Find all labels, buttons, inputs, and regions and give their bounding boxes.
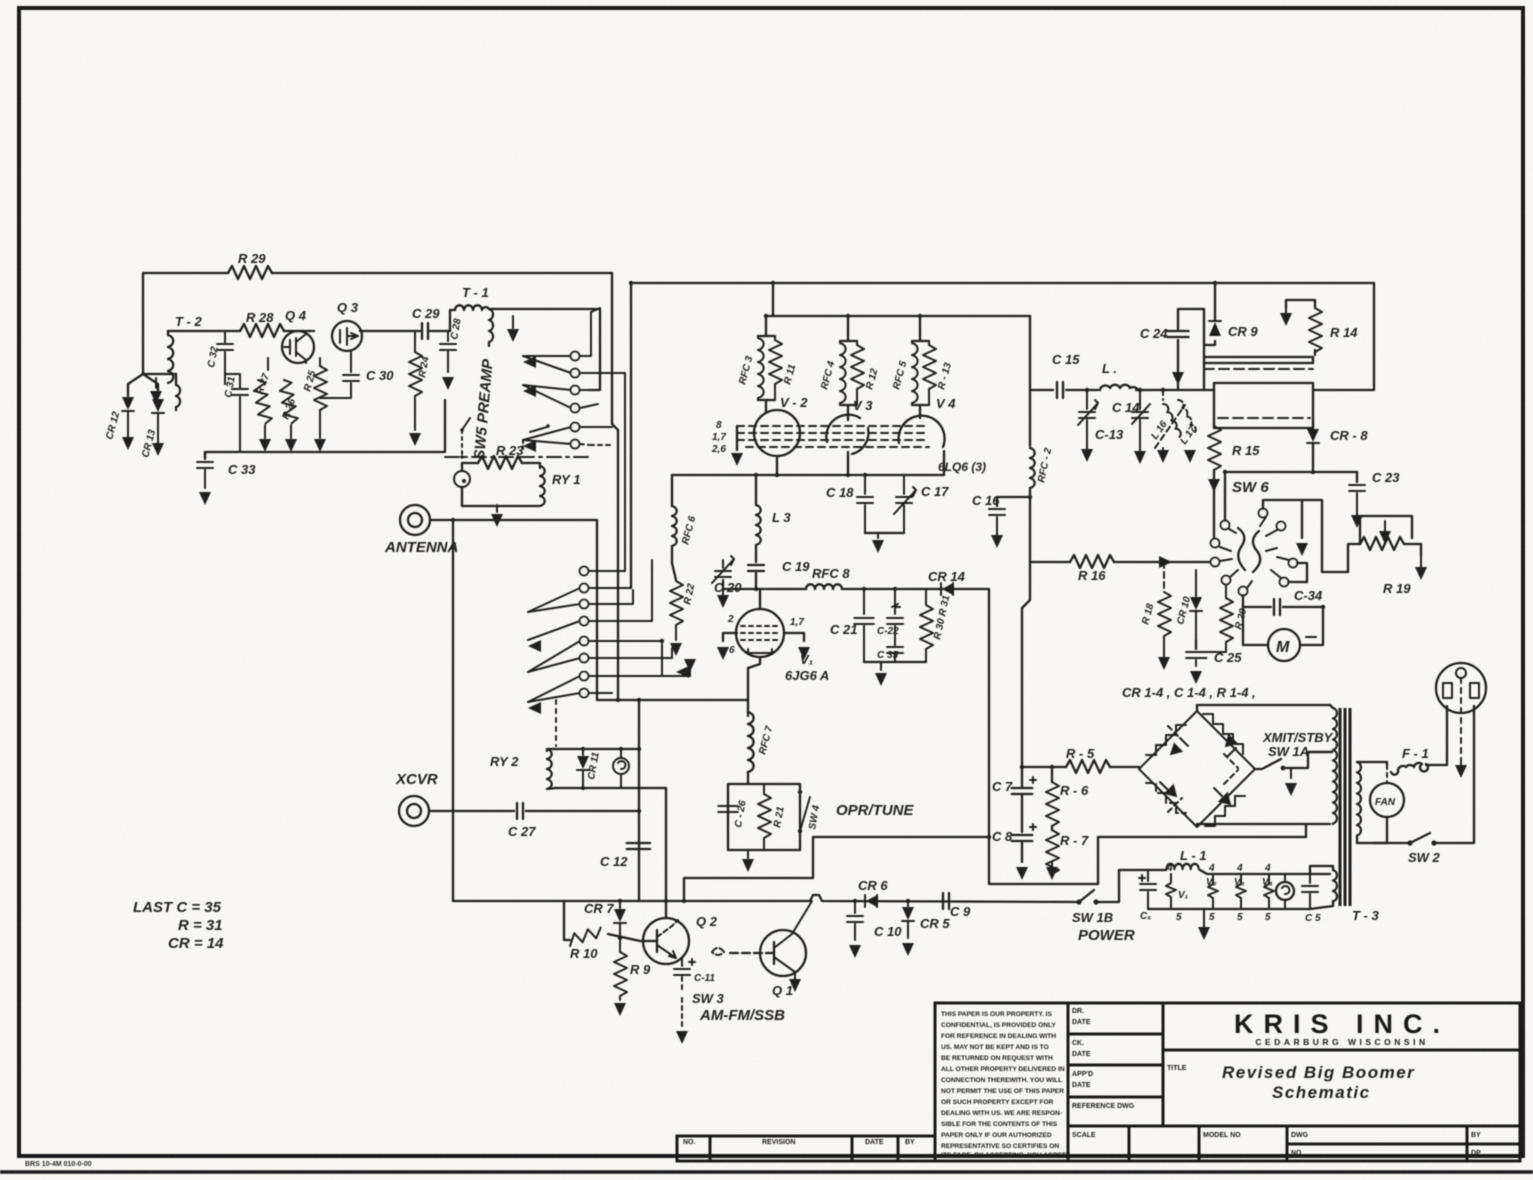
RFC7 xyxy=(747,700,749,716)
transistor Q4 xyxy=(282,331,314,363)
verticals xyxy=(638,700,640,901)
vertical x=1030 down to C7/C8 xyxy=(1022,562,1030,767)
C8 xyxy=(1012,835,1032,841)
LAST C note xyxy=(133,899,224,952)
upper bank: 6 contacts xyxy=(523,356,571,444)
D scribble xyxy=(712,948,724,955)
wire: vertical from R29 corner down (right) xyxy=(612,273,618,700)
grid dash rows across tubes xyxy=(737,426,929,447)
T-3 left winding xyxy=(1330,705,1337,824)
power plug xyxy=(1436,663,1486,713)
vertical bus pair through switch area xyxy=(630,283,632,588)
capacitor C-34 and motor M xyxy=(1242,595,1244,607)
lamp xyxy=(613,758,629,774)
disclaimer tiny text xyxy=(941,1011,1069,1159)
bus y=901 from left to SW1B xyxy=(453,895,1079,902)
resistor R28 xyxy=(240,324,284,337)
C17 variable xyxy=(903,475,905,494)
R15 xyxy=(1213,424,1215,428)
vertical from screen bus corner down to C15 junction and RFC-2 xyxy=(1029,316,1031,390)
bottom margin thick line xyxy=(0,1170,1533,1173)
cap C28 xyxy=(447,331,449,341)
diode CR7, resistors R10 R9 xyxy=(618,899,622,903)
V1 top/bottom connections xyxy=(759,589,761,609)
heater bottom rail xyxy=(1148,908,1310,910)
diode CR12 xyxy=(122,397,134,411)
R16 wire into SW6 xyxy=(1030,497,1070,562)
junction to RFC8 xyxy=(754,587,758,591)
Q1 xyxy=(760,930,806,976)
T-3 heater winding xyxy=(1333,870,1337,906)
C5 xyxy=(1309,874,1311,883)
lower bank: 8 contacts xyxy=(528,588,580,702)
wire y=700 xyxy=(597,699,748,701)
switch wiper to R23 xyxy=(530,427,547,432)
SW6 outputs right xyxy=(1263,500,1348,572)
antenna wire xyxy=(430,520,597,700)
RFC5 / R13 parallel xyxy=(912,316,929,418)
resistor R23 xyxy=(462,463,478,470)
RFC3 / R11 parallel xyxy=(758,316,775,412)
R18 xyxy=(1162,560,1166,564)
C24 xyxy=(1177,340,1179,390)
C10 xyxy=(853,899,857,903)
CR14 xyxy=(920,588,989,590)
C15 xyxy=(1057,382,1063,398)
T-3 right windings xyxy=(1357,762,1361,836)
cap C32 (below wire at x=225) xyxy=(224,331,226,342)
wire from OPR box bottom to right xyxy=(684,837,989,901)
cap C29 xyxy=(422,323,428,339)
wire C27 xyxy=(429,810,514,812)
dashed wiper link down from bank xyxy=(461,430,463,455)
vertical x=989 from CR14 down xyxy=(989,589,1306,884)
cap C12 xyxy=(627,843,649,849)
C14 variable xyxy=(1138,388,1142,392)
CR-8 xyxy=(1312,421,1314,428)
SW1B POWER xyxy=(1076,899,1081,904)
C-11 xyxy=(681,958,683,966)
CR10 xyxy=(1195,570,1197,596)
driver transformer windings xyxy=(1204,356,1313,358)
XCVR connector xyxy=(399,796,429,826)
top bus corner down to R14 top xyxy=(1313,283,1374,390)
bank wiring stubs xyxy=(580,308,600,356)
C7 xyxy=(1012,788,1032,794)
L3 xyxy=(755,475,757,505)
resistors R27 R26 xyxy=(267,358,269,370)
resistor R29 xyxy=(228,266,272,279)
R22 xyxy=(672,563,676,580)
R20 xyxy=(1225,585,1227,598)
vertical x=1204 xyxy=(1203,309,1205,390)
top HT bus xyxy=(631,282,1374,284)
C19 xyxy=(748,565,764,571)
diode CR11 xyxy=(582,749,584,755)
C18 xyxy=(864,475,866,494)
cap C30 xyxy=(350,351,352,372)
diode CR13 xyxy=(152,399,164,413)
revision strip xyxy=(677,1136,935,1161)
R19 xyxy=(1348,544,1360,572)
SW2 xyxy=(1362,842,1407,844)
cap C31 xyxy=(232,389,248,395)
relay coil RY1 xyxy=(522,463,540,468)
OPR/TUNE box xyxy=(728,784,800,850)
pilot lamp xyxy=(1276,882,1294,900)
Q2 xyxy=(643,918,689,964)
screen bus y=316 xyxy=(766,315,1030,317)
bridge rectifier diamond xyxy=(1139,711,1255,827)
dashed link up xyxy=(555,700,557,746)
input cap xyxy=(1147,870,1149,881)
capacitor C21 cluster (C21 C22 C35 R30 R31) xyxy=(863,589,865,614)
cathode bus xyxy=(672,474,944,476)
heater V1 xyxy=(1166,874,1176,909)
resistor R25 xyxy=(319,358,321,366)
wire R15..C23 at y=472 xyxy=(1225,471,1357,473)
RFC4 / R12 parallel xyxy=(840,316,857,420)
C20 variable xyxy=(723,580,756,589)
node: CR12 CR13 tee xyxy=(143,373,176,375)
cathode drops xyxy=(777,451,944,475)
choke L-1 and heater string xyxy=(1096,870,1148,902)
R-5 xyxy=(1022,766,1066,768)
C-13 variable xyxy=(1085,388,1089,392)
C25 xyxy=(1195,640,1197,649)
capacitor C33 xyxy=(205,452,225,459)
wire T-1 to inner rect xyxy=(489,309,600,390)
L16 / L17 slanted coils xyxy=(1161,388,1165,392)
CR6 xyxy=(866,895,877,907)
R-7 xyxy=(1051,826,1053,830)
R-6 xyxy=(1051,767,1053,782)
CR9 diode up on x=1215 xyxy=(1204,341,1215,345)
bridge top/bottom connections xyxy=(1197,705,1330,711)
tube V1 6JG6A xyxy=(736,609,784,657)
wire R29 top rail xyxy=(143,273,228,374)
CR5 xyxy=(906,899,910,903)
T-3 transformer xyxy=(1340,708,1350,906)
R14 with top loop xyxy=(1314,350,1316,355)
main wire y=331 xyxy=(168,330,240,332)
C9 xyxy=(943,893,949,909)
heaters V2 V3 V4 xyxy=(1208,874,1274,909)
FAN xyxy=(1370,783,1404,817)
transistor Q3 xyxy=(332,321,362,351)
ANTENNA connector xyxy=(400,505,430,535)
RFC6 xyxy=(671,475,673,506)
resistor R24 xyxy=(414,331,416,352)
